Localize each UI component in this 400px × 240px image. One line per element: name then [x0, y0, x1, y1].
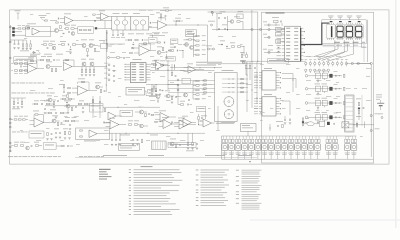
- op-amp U14: [30, 111, 51, 127]
- display digit DS3 bottom ticks: [347, 38, 353, 40]
- driver cell top bus: [222, 136, 357, 159]
- cluster fill E: [164, 91, 177, 104]
- res cap pairs mid: [158, 42, 176, 52]
- switch wire resistors: [204, 80, 207, 93]
- connector row J2: [305, 69, 330, 73]
- top cluster op-amp U1B: [93, 11, 112, 22]
- scan artifact right: [395, 0, 396, 228]
- switch label: [221, 121, 235, 124]
- ref box: [29, 131, 53, 140]
- digit driver cell Q3: [235, 136, 241, 159]
- U10 right edge dark bar: [300, 28, 302, 62]
- cluster M2: [111, 133, 121, 145]
- op-amp U15: [104, 118, 126, 129]
- wide label box: [168, 143, 196, 148]
- digit driver cell Q9: [275, 136, 281, 159]
- caps row C10: [111, 30, 125, 38]
- digit wire d3: [326, 40, 354, 62]
- U7 top parts: [108, 57, 131, 59]
- test point TP1: [212, 11, 226, 16]
- cluster B1: [64, 25, 78, 36]
- display digit DS1 cell: [326, 24, 335, 38]
- driver cell bottom bus: [222, 158, 374, 160]
- display digit DS4 cell: [354, 24, 363, 38]
- display digit DS2 top ticks: [337, 23, 343, 25]
- dual fet U2: [112, 13, 149, 30]
- relay driver row K4: [305, 112, 345, 123]
- pads col H: [177, 78, 190, 100]
- long rule y157: [75, 156, 257, 158]
- cluster LL2: [64, 101, 77, 114]
- cluster C: [46, 62, 62, 72]
- digit driver cell Q12: [295, 136, 301, 159]
- cluster R42: [168, 47, 184, 58]
- switch wires right: [237, 78, 248, 92]
- digit 1 glyph: [331, 26, 333, 37]
- module box ML1: [76, 128, 110, 141]
- osc parts above U10: [272, 17, 282, 26]
- cluster M6: [186, 133, 198, 151]
- wire y105.8: [45, 104, 103, 107]
- func switch box: [119, 144, 140, 151]
- top mid wire: [212, 29, 243, 30]
- scan artifact bottom: [250, 220, 400, 221]
- display board label: [266, 13, 285, 14]
- row2 caps: [10, 40, 26, 49]
- row L5: [11, 142, 42, 150]
- bus y133: [103, 133, 205, 136]
- display digit DS4 pin label: [356, 16, 361, 18]
- display digit DS3 pin label: [347, 16, 352, 18]
- cluster LL1: [11, 98, 26, 109]
- display digit DS2 decimal dash: [339, 21, 342, 22]
- caps mid: [220, 41, 244, 57]
- transistor Q1: [50, 25, 64, 33]
- box mid x172: [171, 39, 178, 44]
- main IC U7: [125, 59, 151, 82]
- note text row 4: [79, 155, 104, 158]
- display digit DS2 cell: [336, 24, 345, 38]
- battery B1: [376, 95, 384, 111]
- switch wafer SW1b: [224, 110, 233, 119]
- feedback R20: [173, 18, 183, 25]
- cluster F: [95, 83, 105, 93]
- pad row right: [208, 21, 215, 26]
- cluster fill C: [46, 110, 67, 119]
- display digit DS1 pin label: [328, 16, 333, 18]
- wire fill G: [146, 84, 178, 104]
- title block: [99, 169, 112, 180]
- res bank LB2: [11, 70, 28, 74]
- note text row 3: [8, 155, 61, 158]
- rule labels: [103, 154, 252, 157]
- cluster L1: [11, 116, 28, 120]
- parts above U3: [156, 13, 166, 21]
- res ladder right: [193, 80, 206, 99]
- digit driver cell Q1: [222, 136, 228, 159]
- display digit DS4 top ticks: [356, 23, 362, 25]
- op-amp U4: [19, 58, 44, 73]
- res pair x242: [240, 52, 247, 61]
- small box right: [166, 56, 175, 61]
- pads col left of U10: [263, 22, 280, 54]
- box L6: [44, 143, 74, 150]
- display digit DS3 cell: [345, 24, 354, 38]
- pads col low: [9, 118, 11, 152]
- display digit DS3 decimal dash: [348, 21, 351, 22]
- cluster under: [37, 56, 60, 61]
- U8 left parts: [242, 61, 256, 80]
- digit wire d1: [318, 40, 335, 59]
- notes column 2: [196, 170, 229, 206]
- display digit DS2 pin label: [337, 16, 342, 18]
- cluster H1: [104, 108, 122, 123]
- cluster M3: [132, 139, 143, 145]
- display digit DS1 decimal dash: [330, 21, 333, 22]
- display bottom rule: [323, 44, 367, 62]
- right col parts: [356, 64, 371, 121]
- U10 pin dots: [304, 31, 305, 53]
- digit 8 glyph 3: [346, 26, 352, 37]
- op-amp U18: [130, 43, 156, 56]
- section divider wire: [252, 10, 258, 62]
- right pads lower: [370, 114, 379, 132]
- verticals left of U8: [247, 62, 258, 112]
- op-amp U16: [155, 117, 178, 129]
- vref column: [90, 96, 104, 118]
- digit wire d2: [322, 40, 345, 61]
- filter box F1: [78, 27, 98, 33]
- logic IC U8: [254, 68, 281, 90]
- parts right of X2: [270, 121, 284, 131]
- logic IC U9: [254, 94, 281, 116]
- box PSU: [120, 110, 132, 116]
- digit driver cell Q6: [255, 136, 261, 159]
- U10 left components: [268, 28, 285, 52]
- bus to display board: [207, 60, 305, 64]
- wire row2: [107, 43, 155, 45]
- cluster L3: [63, 117, 79, 130]
- note text row 2: [12, 92, 55, 95]
- cluster E: [59, 84, 68, 98]
- op-amp U12: [151, 111, 176, 122]
- digit driver cell Q8: [268, 136, 274, 159]
- labels row2: [128, 33, 159, 36]
- cap pair bank C30: [216, 13, 228, 31]
- op-amp U13: [172, 118, 196, 129]
- vertical x106: [105, 30, 108, 92]
- cluster M5: [168, 139, 181, 148]
- cluster mid2: [58, 41, 80, 54]
- label cluster A: [39, 15, 48, 21]
- op-amp U5B: [151, 60, 170, 70]
- wires U8-U9 right: [282, 74, 296, 116]
- notes header: [141, 165, 153, 168]
- op-amp U11: [184, 64, 205, 74]
- cluster M1: [128, 121, 148, 128]
- digit driver cell Q7: [262, 136, 268, 159]
- relay driver row K3: [305, 98, 345, 109]
- right top pads: [346, 62, 372, 64]
- right rail wire: [362, 65, 371, 157]
- note text row 1: [12, 82, 45, 85]
- display board outline: [262, 12, 374, 163]
- U7 right parts: [151, 60, 177, 90]
- op-amp U5A: [63, 59, 80, 70]
- digit driver cell Q13: [301, 136, 307, 159]
- lcd connector block: [345, 95, 354, 132]
- digit driver cell Q5: [248, 136, 254, 159]
- digit driver cell Q4: [242, 136, 248, 159]
- caps under U9: [284, 116, 291, 124]
- cluster fill F: [178, 101, 192, 106]
- digit 8 glyph 2: [337, 26, 343, 37]
- notes column 1: [129, 169, 182, 214]
- shield box SH1: [14, 57, 37, 64]
- cluster LM fill: [32, 101, 54, 114]
- transistor pair Q5 Q6: [183, 40, 193, 50]
- notes column 3: [236, 170, 262, 210]
- cluster mid: [41, 41, 56, 50]
- cluster fill A: [46, 96, 59, 108]
- row3 labels: [30, 53, 63, 56]
- second bus wire: [150, 62, 222, 71]
- labels above U2: [139, 8, 172, 12]
- display digit DS1 top ticks: [328, 23, 334, 25]
- res stack right: [302, 118, 309, 126]
- switch wires left: [168, 81, 215, 93]
- lcd module outline: [322, 20, 366, 44]
- display seg note text: [323, 44, 359, 47]
- digit driver cell Q2: [229, 136, 235, 159]
- digit driver cell Q11: [288, 136, 294, 159]
- digit driver cell Q15: [315, 136, 321, 159]
- cluster fill D: [149, 84, 161, 97]
- digit driver cell Q17: [332, 136, 338, 159]
- adj pot P2: [149, 35, 158, 43]
- schematic sheet outer border: [10, 10, 390, 164]
- pre-driver box: [197, 107, 206, 112]
- display digit DS3 top ticks: [347, 23, 353, 25]
- range switch box: [215, 70, 238, 122]
- dashed cal box: [186, 30, 197, 37]
- display digit DS4 bottom ticks: [356, 38, 362, 40]
- digit fan extra: [304, 44, 348, 60]
- cluster R40: [125, 39, 148, 49]
- display digit DS4 decimal dash: [358, 21, 361, 22]
- cluster fill B: [60, 96, 75, 103]
- display underline dashes: [334, 42, 365, 43]
- box M4: [152, 141, 167, 149]
- U7 left pads: [104, 63, 115, 82]
- switch contact rows: [222, 79, 236, 93]
- cluster mid3: [80, 40, 98, 57]
- digit 8 glyph 4: [356, 26, 362, 37]
- op-amp U1A: [56, 14, 78, 25]
- digit driver cell Q10: [281, 136, 287, 159]
- tiny label texture: [20, 13, 371, 145]
- top right oval relay: [302, 122, 318, 126]
- note text row left: [12, 131, 27, 134]
- op-amp U3: [149, 18, 208, 30]
- small box top mid: [237, 11, 243, 18]
- to display label box: [268, 59, 289, 63]
- relay driver row K2: [305, 84, 345, 95]
- transistor Q30: [228, 17, 244, 30]
- digit driver cell Q16: [326, 136, 332, 159]
- display input pads: [243, 28, 285, 30]
- pads pair mid: [206, 46, 215, 51]
- switch label2: [216, 122, 234, 125]
- digit driver cell Q18: [344, 136, 350, 159]
- cluster R30s: [20, 40, 32, 51]
- op-amp U19: [199, 106, 219, 130]
- relay driver row K1: [305, 71, 345, 82]
- cal trim cluster: [186, 30, 197, 40]
- res ladder top: [194, 25, 208, 62]
- digit driver cell Q14: [308, 136, 314, 159]
- diode pair D1: [30, 51, 41, 56]
- connector row J1: [305, 59, 348, 66]
- display digit DS2 bottom ticks: [337, 38, 343, 40]
- digit wire d4: [362, 40, 367, 48]
- left rail: [9, 25, 11, 152]
- digit driver cell Q19: [351, 136, 357, 159]
- switch wafer SW1a: [224, 97, 234, 107]
- input network R1-R4: [12, 25, 29, 36]
- pad TP2: [211, 11, 213, 13]
- op-amp U17: [179, 116, 197, 127]
- res bank LB1: [11, 60, 33, 64]
- amp block box: [26, 24, 51, 37]
- section top edge: [208, 12, 258, 62]
- row1 wires: [50, 20, 112, 29]
- cluster L2: [50, 116, 62, 126]
- junction col x107: [107, 30, 108, 52]
- display digit DS1 bottom ticks: [328, 38, 334, 40]
- opto box with X: [318, 114, 383, 129]
- cluster L4: [54, 129, 71, 140]
- zero adj pot: [98, 40, 112, 48]
- cluster R41: [157, 47, 168, 59]
- page number: [249, 161, 251, 162]
- input probe J10: [15, 11, 21, 20]
- wire label top: [170, 65, 222, 69]
- display driver IC U10: [277, 26, 304, 61]
- display supply thick bus: [301, 23, 329, 44]
- bus y107: [103, 107, 160, 108]
- digit top common wire: [331, 18, 368, 62]
- cluster H2: [135, 107, 150, 117]
- xtal box X2: [241, 124, 257, 137]
- labels under U3: [152, 33, 168, 36]
- cluster H3: [198, 114, 203, 125]
- op-amp U6: [68, 79, 95, 96]
- osc box Y1: [126, 87, 157, 95]
- cluster G: [145, 86, 164, 103]
- cluster D: [80, 59, 107, 76]
- cluster LL3: [78, 101, 90, 113]
